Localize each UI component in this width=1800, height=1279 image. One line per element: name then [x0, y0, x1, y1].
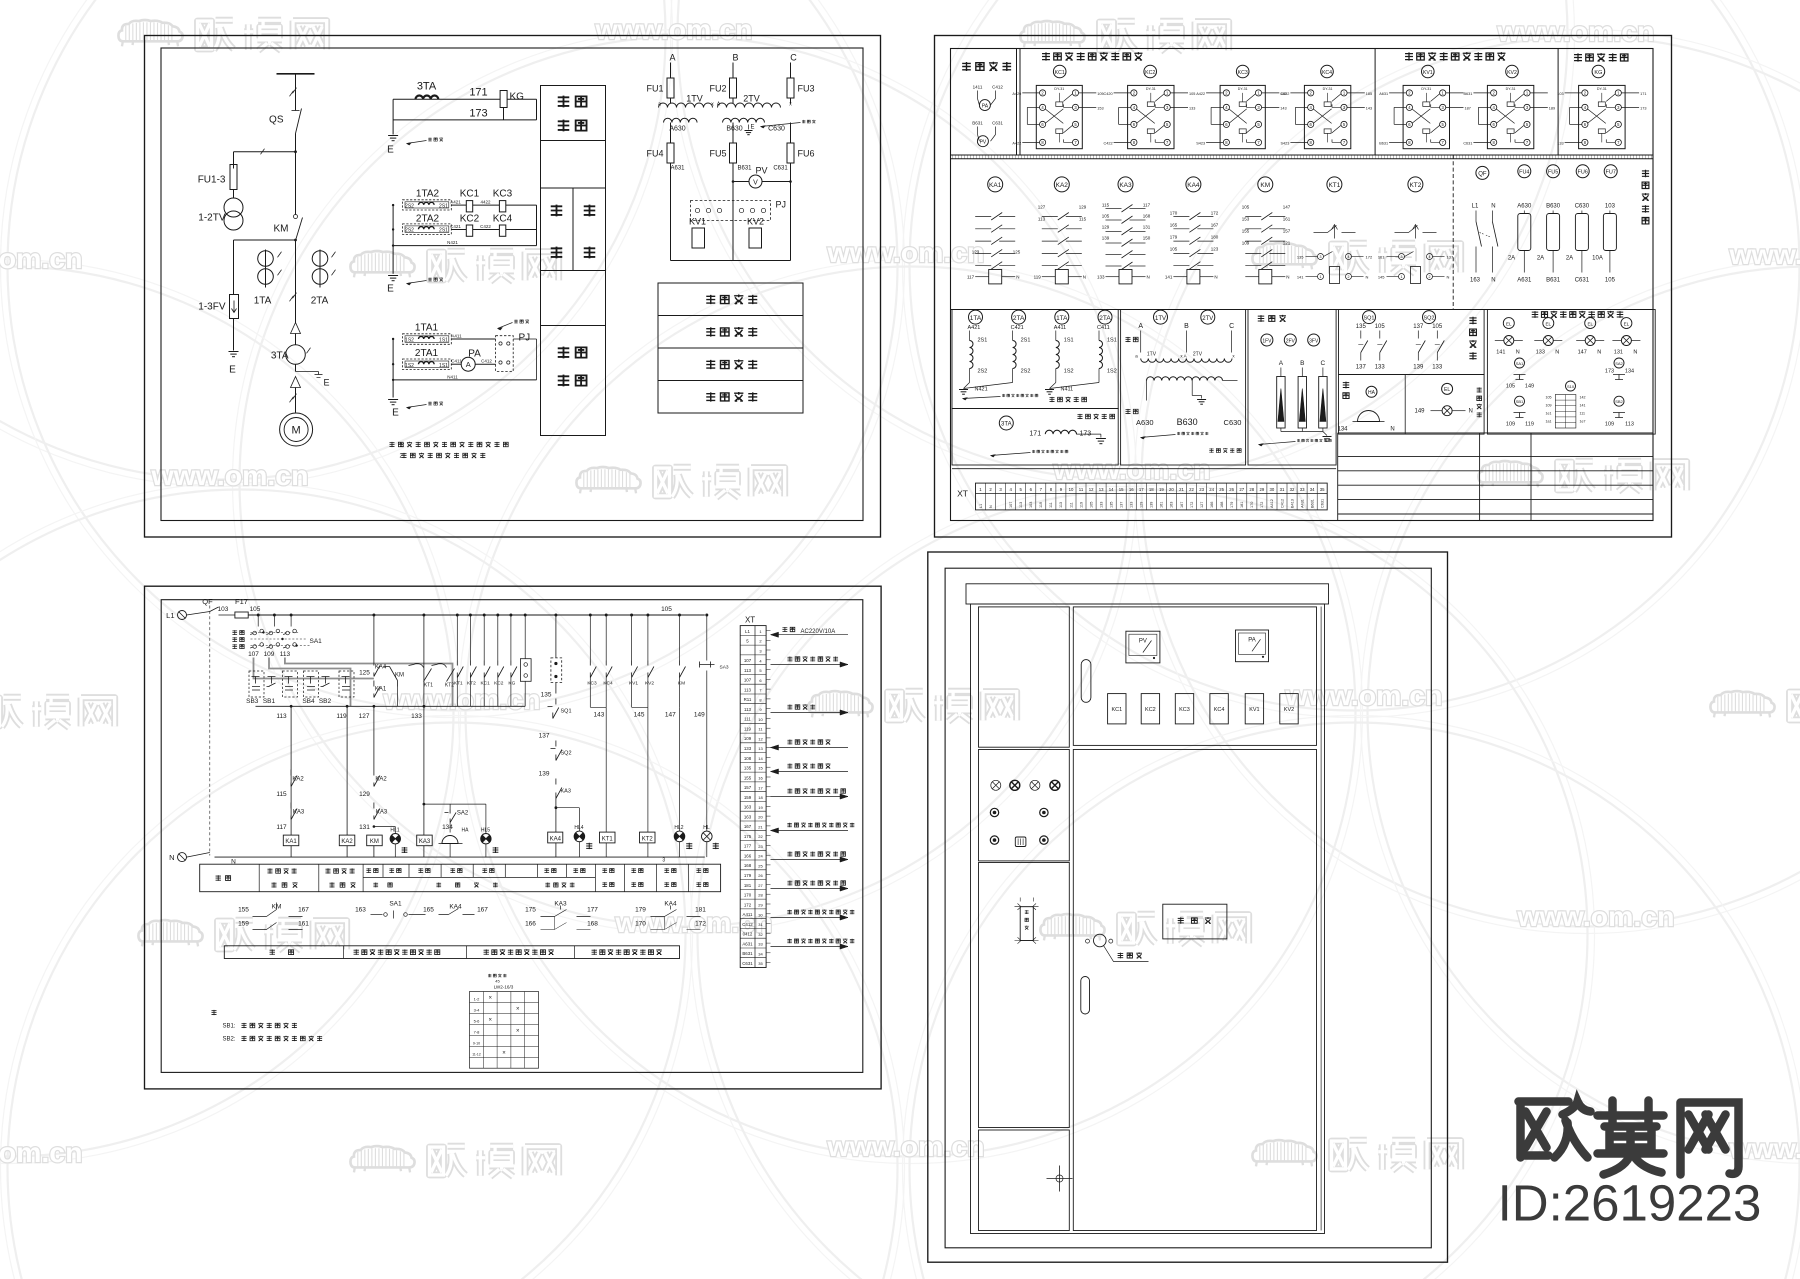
svg-text:C422: C422	[1104, 141, 1113, 145]
svg-text:FU4: FU4	[1519, 170, 1529, 176]
svg-text:149: 149	[1414, 409, 1425, 415]
breaker QF	[1476, 166, 1489, 179]
svg-text:QF: QF	[1478, 171, 1487, 177]
svg-text:KC3: KC3	[1238, 70, 1248, 76]
svg-text:B631: B631	[742, 951, 753, 956]
svg-text:1411: 1411	[973, 85, 983, 90]
svg-text:9-10: 9-10	[473, 1041, 480, 1045]
travel switch contacts	[1417, 331, 1419, 339]
svg-text:113: 113	[276, 713, 287, 720]
svg-text:1S1: 1S1	[1107, 338, 1117, 344]
pushbutton SB1	[267, 677, 276, 687]
svg-text:SA1: SA1	[310, 638, 323, 645]
svg-text:B631: B631	[972, 121, 983, 126]
svg-text:113: 113	[744, 707, 752, 712]
svg-text:185: 185	[1366, 92, 1372, 96]
svg-text:SA1: SA1	[1516, 361, 1524, 366]
svg-text:a: a	[658, 102, 661, 108]
svg-text:KM: KM	[274, 224, 289, 235]
svg-text:163: 163	[744, 814, 752, 819]
door lock + small holes	[1094, 934, 1107, 947]
svg-text:KM: KM	[678, 681, 685, 687]
svg-text:DY-31: DY-31	[1238, 87, 1248, 91]
svg-text:127: 127	[1200, 502, 1204, 508]
svg-text:KA3: KA3	[1119, 182, 1132, 189]
svg-text:PA: PA	[1248, 638, 1256, 644]
svg-text:KC2: KC2	[1145, 70, 1155, 76]
box travel switches	[1339, 310, 1485, 375]
svg-text:1a1: 1a1	[1546, 420, 1552, 424]
svg-text:26: 26	[758, 873, 763, 878]
svg-text:HL4: HL4	[574, 825, 583, 831]
svg-text:B630: B630	[726, 126, 742, 133]
svg-text:115: 115	[1102, 203, 1110, 208]
svg-text:3TA: 3TA	[1001, 422, 1012, 428]
svg-text:A411: A411	[743, 912, 753, 917]
svg-text:129: 129	[1140, 502, 1144, 508]
svg-text:10A: 10A	[1592, 256, 1603, 262]
svg-text:125: 125	[359, 670, 370, 677]
svg-text:168: 168	[587, 921, 598, 928]
svg-text:34: 34	[1310, 487, 1315, 492]
svg-text:142: 142	[1580, 396, 1586, 400]
svg-text:2: 2	[1429, 275, 1431, 279]
svg-text:KV2: KV2	[645, 681, 654, 687]
svg-text:KM: KM	[1260, 182, 1270, 189]
button SB1	[1515, 396, 1525, 406]
svg-text:113: 113	[744, 687, 752, 692]
svg-text:5-6: 5-6	[474, 1018, 481, 1023]
box alarm bell	[1339, 375, 1485, 435]
svg-text:119: 119	[1039, 502, 1043, 508]
relay KC4	[1321, 65, 1334, 78]
svg-text:KV1: KV1	[1249, 707, 1259, 713]
wire to earth tap	[295, 364, 297, 371]
svg-text:2TA2: 2TA2	[416, 214, 440, 225]
svg-text:KT2: KT2	[642, 836, 654, 842]
svg-text:SB3: SB3	[246, 698, 259, 705]
svg-text:B631: B631	[1464, 92, 1473, 96]
section earth relay title	[1574, 53, 1582, 61]
CT 2TA1 secondary	[403, 359, 452, 370]
svg-text:HL2: HL2	[674, 825, 683, 831]
wire main vertical	[295, 74, 297, 106]
svg-text:M: M	[292, 425, 301, 437]
fault contact branches	[456, 614, 459, 617]
arrester element	[1322, 368, 1324, 377]
svg-text:3TA: 3TA	[417, 81, 437, 93]
svg-text:E: E	[750, 125, 754, 131]
svg-text:L1: L1	[1472, 204, 1479, 210]
svg-text:0412: 0412	[743, 932, 753, 937]
svg-text:KG: KG	[510, 92, 525, 103]
svg-text:19: 19	[1159, 487, 1164, 492]
legend table: fuse/voltage/ext-voltage/undervoltage	[658, 283, 803, 413]
voltmeter PV	[1126, 631, 1160, 663]
svg-text:145: 145	[1378, 275, 1385, 280]
KT coil branches	[589, 614, 592, 617]
svg-text:B631: B631	[737, 166, 752, 172]
svg-text:35: 35	[758, 961, 763, 966]
frame panel2 inner	[951, 49, 1654, 521]
time relay KT1	[1327, 177, 1342, 192]
svg-text:15: 15	[1119, 487, 1124, 492]
svg-text:133: 133	[1557, 141, 1563, 145]
svg-text:2A: 2A	[1566, 256, 1573, 262]
svg-text:165: 165	[423, 907, 434, 914]
svg-text:179: 179	[744, 873, 752, 878]
svg-text:SB2: SB2	[319, 698, 332, 705]
svg-text:175: 175	[744, 834, 752, 839]
svg-text:172: 172	[1366, 255, 1373, 260]
svg-text:B631: B631	[1310, 499, 1314, 508]
svg-text:B: B	[1184, 323, 1189, 330]
svg-text:133: 133	[411, 713, 422, 720]
svg-text:B631: B631	[1379, 141, 1388, 145]
svg-text:103: 103	[1557, 92, 1563, 96]
source terminal L1	[178, 611, 187, 620]
svg-text:133: 133	[1536, 350, 1545, 356]
svg-text:105: 105	[1605, 278, 1616, 284]
svg-text:117: 117	[1143, 203, 1151, 208]
svg-text:S423: S423	[1196, 141, 1205, 145]
svg-text:3FV: 3FV	[1309, 339, 1319, 345]
svg-text:33: 33	[758, 942, 763, 947]
svg-text:119: 119	[744, 727, 752, 732]
svg-text:30: 30	[758, 912, 763, 917]
box current transformers	[952, 310, 1118, 409]
svg-text:N: N	[1555, 350, 1559, 356]
svg-text:C630: C630	[1224, 418, 1242, 427]
svg-text:3: 3	[662, 858, 665, 864]
svg-text:KV2: KV2	[1507, 70, 1517, 76]
svg-text:167: 167	[477, 907, 488, 914]
frame panel1 outer	[145, 36, 881, 538]
svg-text:EL: EL	[1546, 322, 1552, 327]
svg-text:KC3: KC3	[1179, 707, 1190, 713]
svg-text:167: 167	[1211, 223, 1219, 228]
svg-text:1-2TV: 1-2TV	[198, 213, 226, 224]
svg-text:C631: C631	[1463, 141, 1472, 145]
svg-text:KV2: KV2	[747, 217, 764, 227]
svg-text:149: 149	[694, 712, 705, 719]
svg-text:KA2: KA2	[375, 777, 387, 783]
svg-text:11: 11	[1079, 487, 1084, 492]
box small control panel (rear)	[1487, 310, 1655, 435]
svg-text:105: 105	[250, 606, 261, 613]
dashed cell mid	[283, 671, 298, 697]
svg-text:123: 123	[972, 250, 980, 255]
svg-text:103: 103	[1029, 502, 1033, 508]
svg-text:2S1: 2S1	[1021, 338, 1031, 344]
svg-text:27: 27	[758, 883, 763, 888]
coil KA3	[417, 835, 433, 846]
aux relay KA2 contacts	[1054, 177, 1069, 192]
svg-text:DY-31: DY-31	[1421, 87, 1431, 91]
svg-text:107: 107	[248, 651, 259, 658]
svg-text:N: N	[1491, 204, 1495, 210]
svg-text:125: 125	[1013, 250, 1021, 255]
svg-text:149: 149	[1525, 384, 1534, 390]
svg-text:A420: A420	[1012, 92, 1021, 96]
terminal box on fault rail	[520, 659, 531, 682]
svg-text:FU1: FU1	[646, 84, 663, 94]
XT destination arrows	[771, 634, 849, 636]
relay KG	[1592, 65, 1605, 78]
svg-text:KC3: KC3	[493, 189, 513, 200]
svg-text:34: 34	[758, 951, 763, 956]
PT secondary windings	[664, 118, 698, 122]
aux relay KA1 contacts	[988, 177, 1003, 192]
svg-text:KA1: KA1	[989, 182, 1002, 189]
svg-text:105: 105	[1170, 247, 1178, 252]
svg-text:119: 119	[1034, 275, 1042, 280]
dashed cell right	[339, 671, 354, 697]
svg-text:N421: N421	[447, 240, 458, 245]
svg-text:PA: PA	[982, 104, 989, 110]
coil KA4 + lamp HL4 green	[555, 808, 557, 832]
middle band divider (double with ticks)	[951, 154, 1654, 156]
svg-text:159: 159	[744, 795, 752, 800]
svg-text:XT: XT	[957, 489, 968, 499]
svg-text:17: 17	[758, 785, 763, 790]
svg-text:103: 103	[1605, 204, 1616, 210]
svg-text:1e1: 1e1	[1546, 412, 1552, 416]
svg-text:181: 181	[1240, 502, 1244, 508]
svg-text:SB1:: SB1:	[223, 1024, 236, 1030]
small control box interior	[1642, 170, 1649, 177]
TV secondary winding	[1147, 377, 1223, 381]
svg-text:166: 166	[744, 853, 752, 858]
svg-text:E: E	[323, 378, 329, 388]
svg-text:KA1: KA1	[285, 839, 297, 845]
svg-text:134: 134	[442, 824, 453, 831]
svg-text:×: ×	[488, 996, 492, 1002]
box surge arresters	[1248, 310, 1336, 466]
switch SA2	[1614, 358, 1624, 368]
pushbutton SB2	[321, 677, 330, 687]
svg-text:168: 168	[1220, 502, 1224, 508]
purpose strip row	[224, 946, 679, 959]
svg-text:133: 133	[1432, 365, 1443, 371]
svg-text:23: 23	[1199, 487, 1204, 492]
frame panel1 inner	[161, 48, 863, 521]
relay cutout row KC1..KV2	[1108, 694, 1126, 724]
svg-text:A630: A630	[669, 126, 685, 133]
svg-text:135: 135	[1297, 255, 1304, 260]
svg-text:29: 29	[1260, 487, 1265, 492]
door hinge slots	[1081, 660, 1091, 703]
wire N411 return	[393, 379, 536, 381]
parts list rows	[1338, 432, 1653, 434]
svg-text:22: 22	[1189, 487, 1194, 492]
fuse FU6	[1576, 165, 1589, 178]
svg-text:L1: L1	[166, 611, 174, 620]
svg-text:SB1: SB1	[263, 698, 276, 705]
svg-text:N411: N411	[447, 374, 458, 379]
buttons	[990, 808, 998, 816]
svg-text:SQ1: SQ1	[1363, 316, 1374, 322]
svg-text:DY-31: DY-31	[1146, 87, 1156, 91]
svg-text:111: 111	[744, 717, 751, 722]
svg-text:KT2: KT2	[467, 681, 476, 687]
svg-text:DY-31: DY-31	[1506, 87, 1516, 91]
busbar	[277, 73, 315, 75]
svg-text:C420: C420	[1104, 92, 1113, 96]
svg-text:24: 24	[1209, 487, 1214, 492]
wire main below KM	[295, 240, 297, 323]
svg-text:S423: S423	[1281, 141, 1290, 145]
svg-text:PJ: PJ	[519, 333, 531, 344]
svg-text:20: 20	[758, 815, 763, 820]
bell HA	[442, 836, 458, 844]
svg-text:HL: HL	[703, 825, 710, 831]
svg-text:25: 25	[758, 863, 763, 868]
svg-text:111: 111	[1069, 502, 1073, 508]
svg-text:A: A	[1138, 323, 1143, 330]
svg-text:172: 172	[744, 902, 752, 907]
coil KM	[367, 835, 383, 846]
svg-text:103: 103	[218, 606, 229, 613]
svg-text:A631: A631	[1379, 92, 1388, 96]
SA1 contacts row1	[253, 631, 257, 635]
lamp HL1 red	[373, 825, 376, 828]
text earth protection	[558, 96, 570, 108]
svg-text:3-4: 3-4	[474, 1007, 481, 1012]
svg-text:135: 135	[744, 766, 752, 771]
svg-text:166: 166	[1210, 502, 1214, 508]
svg-text:KT2: KT2	[1409, 182, 1421, 189]
svg-text:A: A	[466, 360, 471, 369]
svg-text:147: 147	[1283, 205, 1291, 210]
svg-text:A411: A411	[1054, 325, 1066, 331]
svg-text:109: 109	[1242, 241, 1250, 246]
svg-text:A421: A421	[450, 200, 461, 205]
frame panel3 inner	[161, 600, 863, 1073]
svg-text:SQ2: SQ2	[1423, 316, 1434, 322]
relay KC1	[1053, 65, 1066, 78]
svg-text:L1: L1	[745, 629, 750, 634]
nameplate	[1163, 904, 1227, 939]
svg-text:168: 168	[744, 863, 752, 868]
svg-text:139: 139	[1413, 365, 1424, 371]
svg-text:A421: A421	[968, 325, 981, 331]
svg-text:A431: A431	[1300, 499, 1304, 508]
panel lamp	[1543, 318, 1554, 329]
text quick-break / overcurrent	[551, 205, 563, 217]
svg-text:129: 129	[1079, 205, 1087, 210]
svg-text:165: 165	[1170, 223, 1178, 228]
CT 1TA	[969, 310, 983, 324]
svg-text:KC1: KC1	[460, 189, 480, 200]
svg-text:KT1: KT1	[1328, 182, 1340, 189]
notes	[389, 442, 394, 447]
pushbutton SB4	[304, 671, 319, 697]
text current measuring	[558, 347, 570, 359]
svg-text:121: 121	[1283, 241, 1291, 246]
svg-text:155: 155	[744, 775, 752, 780]
svg-text:12: 12	[1089, 487, 1094, 492]
svg-text:181: 181	[695, 907, 706, 914]
svg-text:SA1: SA1	[389, 901, 402, 908]
svg-text:N421: N421	[975, 387, 988, 393]
svg-text:134: 134	[1625, 369, 1634, 375]
svg-text:SA2: SA2	[1615, 361, 1623, 366]
svg-text:155: 155	[1242, 229, 1250, 234]
svg-text:171: 171	[1029, 431, 1041, 438]
svg-text:C631: C631	[1575, 278, 1590, 284]
svg-text:FU1-3: FU1-3	[198, 175, 226, 186]
svg-text:107: 107	[744, 658, 752, 663]
svg-text:N: N	[169, 853, 174, 862]
box zero-seq CT	[952, 409, 1118, 466]
svg-text:KA2: KA2	[1056, 182, 1069, 189]
svg-text:2TA1: 2TA1	[415, 348, 439, 359]
svg-text:EL: EL	[1444, 387, 1450, 393]
svg-text:KT1: KT1	[424, 683, 433, 689]
coil KA1	[283, 835, 299, 846]
aux relay KA4 contacts	[1186, 177, 1201, 192]
svg-text:15: 15	[758, 766, 763, 771]
svg-text:FU5: FU5	[1548, 170, 1558, 176]
svg-text:2S1: 2S1	[439, 228, 448, 234]
wire PT branch	[234, 151, 296, 153]
svg-text:KA4: KA4	[375, 665, 387, 671]
svg-text:www.om.cn: www.om.cn	[150, 460, 308, 491]
svg-text:11-12: 11-12	[472, 1052, 481, 1056]
box voltage transformers	[1121, 310, 1246, 466]
svg-text:SB4: SB4	[302, 698, 315, 705]
svg-text:134: 134	[1337, 427, 1348, 433]
svg-text:EL: EL	[1506, 322, 1512, 327]
svg-text:14: 14	[758, 756, 763, 761]
svg-text:172: 172	[1260, 502, 1264, 508]
svg-text:C631: C631	[992, 121, 1003, 126]
ground at PT neutral	[748, 125, 750, 130]
drawout contact top	[291, 323, 301, 334]
delayed contacts KT1 KT2	[409, 663, 424, 667]
frame panel3 outer	[145, 586, 882, 1089]
drawout contact bottom	[291, 377, 301, 388]
frame panel4 outer	[928, 552, 1448, 1262]
relay KC1	[451, 204, 466, 206]
svg-text:179: 179	[1170, 235, 1178, 240]
svg-text:1TA: 1TA	[970, 315, 982, 322]
svg-text:7-8: 7-8	[474, 1029, 481, 1034]
svg-text:137: 137	[1356, 365, 1367, 371]
svg-text:2:: 2:	[400, 454, 405, 460]
pushbutton SB3 (dashed cell)	[249, 671, 264, 697]
svg-text:141: 141	[1297, 275, 1304, 280]
svg-text:KG: KG	[508, 681, 515, 687]
svg-text:ID:2619223: ID:2619223	[1498, 1175, 1762, 1232]
svg-text:N: N	[1214, 275, 1217, 280]
svg-text:DY-31: DY-31	[1323, 87, 1333, 91]
svg-text:DY-31: DY-31	[1597, 87, 1607, 91]
svg-text:29: 29	[758, 903, 763, 908]
svg-text:173: 173	[1640, 106, 1646, 110]
svg-text:31: 31	[758, 922, 763, 927]
svg-text:21: 21	[758, 824, 763, 829]
bottom tie wires	[670, 201, 672, 261]
svg-text:143: 143	[1280, 106, 1286, 110]
svg-text:172: 172	[1190, 502, 1194, 508]
svg-text:×: ×	[516, 1007, 520, 1013]
routed grey wires	[285, 658, 453, 707]
svg-text:KV1: KV1	[689, 217, 706, 227]
svg-text:32: 32	[758, 932, 763, 937]
svg-text:1S1: 1S1	[1064, 338, 1074, 344]
